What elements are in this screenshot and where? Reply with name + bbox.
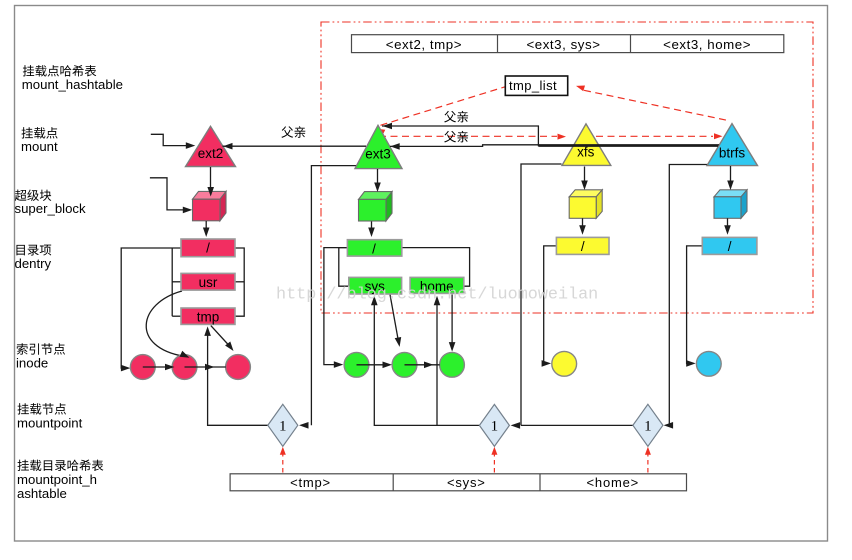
svg-text:http://blog.csdn.net/luomoweil: http://blog.csdn.net/luomoweilan — [276, 285, 598, 304]
svg-text:1: 1 — [279, 419, 287, 435]
svg-text:tmp_list: tmp_list — [509, 78, 557, 93]
svg-text:inode: inode — [16, 356, 48, 371]
svg-text:mount: mount — [21, 139, 58, 154]
svg-text:ext3: ext3 — [365, 146, 391, 161]
svg-text:super_block: super_block — [15, 201, 87, 216]
svg-text:ext2: ext2 — [198, 146, 224, 161]
svg-text:tmp: tmp — [197, 310, 220, 325]
svg-text:<ext2, tmp>: <ext2, tmp> — [386, 37, 462, 52]
svg-text:btrfs: btrfs — [719, 146, 746, 161]
svg-text:/: / — [206, 241, 210, 256]
svg-text:<ext3, sys>: <ext3, sys> — [526, 37, 600, 52]
svg-text:/: / — [581, 239, 585, 254]
svg-text:<sys>: <sys> — [447, 475, 486, 490]
svg-text:<home>: <home> — [587, 475, 640, 490]
svg-text:1: 1 — [644, 419, 652, 435]
svg-text:/: / — [372, 241, 376, 256]
svg-text:mountpoint_h: mountpoint_h — [17, 472, 97, 487]
svg-text:mount_hashtable: mount_hashtable — [22, 77, 123, 92]
svg-text:<ext3, home>: <ext3, home> — [663, 37, 751, 52]
svg-text:/: / — [728, 239, 732, 254]
svg-text:mountpoint: mountpoint — [17, 416, 83, 431]
svg-text:ashtable: ashtable — [17, 486, 67, 501]
svg-text:dentry: dentry — [15, 256, 52, 271]
svg-text:<tmp>: <tmp> — [290, 475, 331, 490]
svg-text:usr: usr — [199, 275, 218, 290]
svg-text:xfs: xfs — [577, 145, 595, 160]
svg-text:1: 1 — [491, 419, 499, 435]
